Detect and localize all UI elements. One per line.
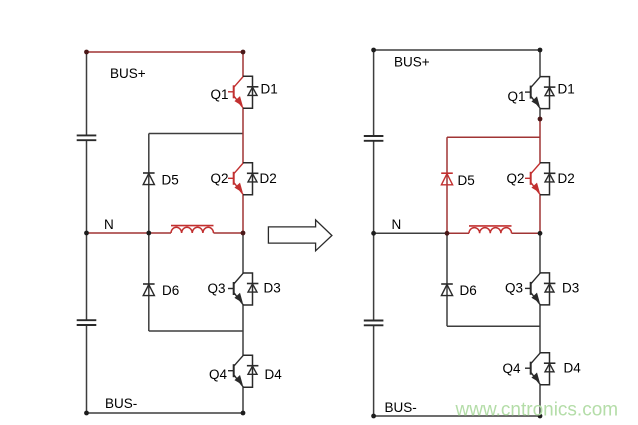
- svg-text:Q4: Q4: [503, 361, 522, 376]
- watermark: [455, 400, 619, 421]
- wire: right DC-link rail: [373, 50, 375, 416]
- inductor L1: [171, 226, 214, 233]
- wire: switch branch (red top half): [242, 52, 244, 233]
- wire: left DC-link rail: [86, 52, 88, 413]
- diode D4 (anti-parallel): [540, 353, 581, 385]
- capacitor C3: [364, 136, 384, 141]
- diode D2 (anti-parallel): [243, 163, 277, 195]
- wire: switch branch bottom (black): [539, 233, 541, 416]
- diode D5 (clamp): [441, 173, 475, 188]
- transistor Q4: [209, 355, 243, 387]
- svg-text:Q1: Q1: [211, 87, 229, 102]
- node BUS+ left: [84, 50, 146, 81]
- svg-text:D1: D1: [558, 82, 575, 97]
- wire: switch branch mid (red): [539, 119, 541, 233]
- node Q1-Q2 midpoint (red): [538, 117, 543, 122]
- node BUS+ right: [241, 50, 246, 55]
- capacitor C4: [364, 321, 384, 326]
- svg-text:N: N: [392, 217, 402, 232]
- transistor Q1: [508, 77, 541, 109]
- diode D2 (anti-parallel): [540, 163, 575, 195]
- diode D6 (clamp): [143, 283, 179, 298]
- svg-text:D6: D6: [460, 283, 477, 298]
- wire: BUS- rail bottom: [87, 412, 244, 414]
- wire: N rail left part: [374, 232, 447, 234]
- diode D5 (clamp): [143, 173, 179, 188]
- capacitor C1: [77, 135, 97, 140]
- node N junctions: [84, 217, 245, 235]
- node BUS+ right-circuit: [371, 48, 542, 70]
- svg-text:D3: D3: [562, 281, 579, 296]
- wire: clamp branch lower: [447, 233, 540, 326]
- wire: N rail red part: [447, 232, 540, 234]
- diode D3 (anti-parallel): [243, 273, 281, 305]
- wire: switch branch (black bottom half): [242, 233, 244, 413]
- transistor Q1: [211, 77, 244, 109]
- wire: BUS+ rail top (red): [87, 51, 244, 53]
- svg-text:Q4: Q4: [209, 367, 228, 382]
- diode D1 (anti-parallel): [243, 76, 278, 108]
- svg-text:D4: D4: [265, 367, 283, 382]
- wire: N rail (red): [87, 232, 244, 234]
- svg-text:Q2: Q2: [211, 171, 229, 186]
- wire: clamp branch lower: [149, 233, 243, 331]
- wire: clamp branch upper: [149, 134, 243, 234]
- svg-text:D5: D5: [458, 173, 475, 188]
- svg-text:BUS-: BUS-: [385, 400, 417, 415]
- node BUS- junctions: [84, 396, 245, 415]
- node N junctions right-circuit: [371, 217, 542, 236]
- node BUS- junctions right-circuit: [371, 400, 542, 418]
- transistor Q3: [505, 273, 540, 305]
- svg-text:Q3: Q3: [505, 281, 523, 296]
- transistor Q4: [503, 353, 541, 385]
- svg-text:D6: D6: [162, 283, 179, 298]
- wire: BUS+ rail top: [374, 49, 540, 51]
- diode D6 (clamp): [441, 283, 477, 298]
- svg-text:D2: D2: [260, 171, 277, 186]
- svg-text:D3: D3: [264, 281, 281, 296]
- svg-text:D4: D4: [564, 361, 582, 376]
- svg-text:Q3: Q3: [208, 281, 226, 296]
- capacitor C2: [77, 320, 97, 325]
- svg-text:D1: D1: [261, 82, 278, 97]
- svg-text:D5: D5: [162, 173, 179, 188]
- diode D3 (anti-parallel): [540, 273, 579, 305]
- transistor Q2: [507, 163, 541, 195]
- svg-text:Q1: Q1: [508, 89, 526, 104]
- transistor Q3: [208, 273, 244, 305]
- svg-text:www.cntronics.com: www.cntronics.com: [455, 400, 619, 421]
- inductor L2: [469, 226, 512, 233]
- svg-text:BUS+: BUS+: [394, 55, 430, 70]
- svg-text:BUS-: BUS-: [105, 396, 137, 411]
- diode D4 (anti-parallel): [243, 355, 282, 387]
- svg-text:D2: D2: [558, 171, 575, 186]
- svg-text:N: N: [104, 217, 114, 232]
- diode D1 (anti-parallel): [540, 77, 575, 109]
- svg-text:Q2: Q2: [507, 171, 525, 186]
- wire: clamp branch upper (red): [447, 137, 540, 233]
- arrow (transition): [268, 220, 332, 251]
- svg-text:BUS+: BUS+: [110, 66, 146, 81]
- wire: switch branch top (black): [539, 50, 541, 119]
- transistor Q2: [211, 163, 244, 195]
- wire: BUS- rail bottom: [374, 415, 540, 417]
